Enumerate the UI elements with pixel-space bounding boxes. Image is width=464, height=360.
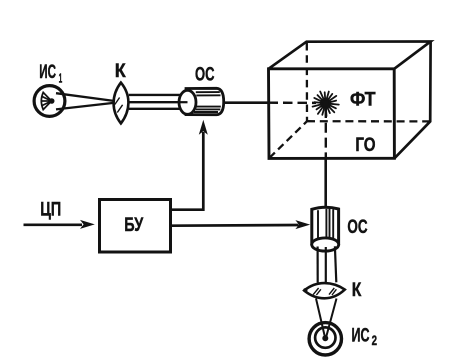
input arrow CP to BU xyxy=(24,224,83,227)
chamber box: top face xyxy=(269,42,431,69)
starburst target FT: center xyxy=(320,98,331,109)
converging cone from lens K to IS2 xyxy=(316,299,337,337)
arrowhead right at lower OC xyxy=(295,220,310,229)
hatch marks in lower lens xyxy=(313,288,336,295)
objective barrel OC (upper) xyxy=(186,88,224,114)
lens K (lower, horizontal biconvex) xyxy=(304,283,345,298)
svg-text:ИС: ИС xyxy=(39,62,56,83)
svg-text:ОС: ОС xyxy=(347,217,367,238)
IS2 center dot xyxy=(322,335,328,341)
beam: three lines from lower OC to lens K xyxy=(318,246,337,283)
svg-text:2: 2 xyxy=(372,333,377,348)
hidden edge: bottom-left depth (dashed) xyxy=(270,121,308,158)
IS2 inner circle xyxy=(315,327,335,347)
control unit BU box xyxy=(100,200,171,253)
lower barrel shading lines xyxy=(318,209,333,240)
hidden edge: back-left vertical (dashed) xyxy=(306,43,309,121)
light source IS2: outer circle xyxy=(309,323,341,355)
svg-text:К: К xyxy=(115,61,126,82)
light cone from IS1 to condenser K xyxy=(56,93,114,109)
svg-text:БУ: БУ xyxy=(124,215,143,236)
chamber box: right face xyxy=(394,42,430,159)
svg-text:ОС: ОС xyxy=(195,64,215,85)
left tip blob xyxy=(303,288,307,292)
svg-text:ЦП: ЦП xyxy=(40,199,61,221)
lower barrel end-cap ellipse xyxy=(312,238,339,251)
barrel shading lines xyxy=(194,92,221,112)
svg-text:ГО: ГО xyxy=(355,135,375,156)
svg-text:ФТ: ФТ xyxy=(350,90,376,111)
barrel end-cap ellipse xyxy=(179,90,196,114)
axis stub into end cap xyxy=(179,101,188,103)
arrowhead right xyxy=(80,220,95,229)
beam axis inside chamber (dashed) to target xyxy=(269,101,317,104)
objective barrel OC (lower, vertical) xyxy=(312,207,339,244)
lamp filament fan inside IS1 xyxy=(41,92,52,109)
wire from BU right to lower OC xyxy=(171,224,299,227)
collimated beam: three lines from K to OC xyxy=(129,95,188,109)
starburst rays xyxy=(313,92,339,117)
hatch marks in lens K xyxy=(115,98,123,113)
arrowhead up xyxy=(199,120,208,135)
wire: axis from OC to chamber xyxy=(224,101,268,104)
hidden edge: back-bottom (dashed) xyxy=(307,120,430,123)
svg-text:1: 1 xyxy=(59,71,63,86)
svg-text:ИС: ИС xyxy=(352,325,370,347)
svg-text:К: К xyxy=(352,279,362,301)
vertical axis below box to lower OC xyxy=(324,158,327,207)
light source IS1 circle xyxy=(34,86,65,117)
vertical axis from target (dashed inside box) xyxy=(325,108,327,158)
chamber box: front face xyxy=(269,69,395,159)
condenser lens K (upper, vertical biconvex) xyxy=(114,83,129,124)
wire from BU up to upper OC xyxy=(171,132,203,210)
